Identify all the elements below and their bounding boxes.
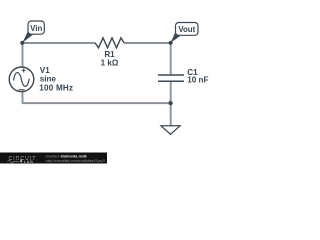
svg-text:Vin: Vin xyxy=(30,24,42,33)
svg-text:V1: V1 xyxy=(40,66,50,75)
wire right mid vertical xyxy=(170,81,172,103)
wire left lower vertical xyxy=(22,92,24,104)
svg-text:http://circuitlab.com/c/u8skke: http://circuitlab.com/c/u8skke21ps2/ xyxy=(46,159,106,163)
capacitor C1 xyxy=(158,75,184,81)
wire left upper vertical xyxy=(22,43,24,68)
voltage source V1 xyxy=(9,67,34,92)
wire bottom xyxy=(22,102,171,104)
node C dot xyxy=(169,101,173,105)
svg-text:sine: sine xyxy=(40,75,57,84)
wire top left: node A to resistor xyxy=(22,42,95,44)
svg-text:arinsabila29 / Elektronika_Uni: arinsabila29 / Elektronika_Unit6 xyxy=(46,155,87,159)
ground xyxy=(161,126,180,135)
svg-text:10 nF: 10 nF xyxy=(187,76,208,85)
node label Vin xyxy=(22,21,44,43)
svg-text:1 kΩ: 1 kΩ xyxy=(101,59,119,68)
svg-text:100 MHz: 100 MHz xyxy=(39,83,73,92)
wire top right: resistor to node B xyxy=(124,42,171,44)
wire right upper vertical xyxy=(170,43,172,75)
resistor R1 xyxy=(95,38,124,48)
svg-text:Vout: Vout xyxy=(178,25,195,34)
wire right lower vertical to ground xyxy=(170,103,172,126)
svg-text:LAB: LAB xyxy=(24,160,34,164)
node A dot xyxy=(20,41,24,45)
node label Vout xyxy=(171,23,198,43)
footer watermark bar xyxy=(0,153,107,165)
node B dot xyxy=(169,41,173,45)
